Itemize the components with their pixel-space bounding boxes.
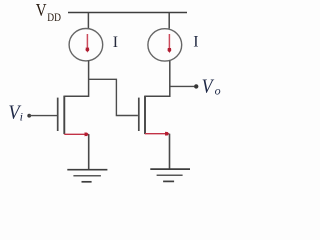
wire drain of M2 [145,95,170,97]
transistor M2 channel bar [144,96,146,135]
ground (right) [150,169,190,181]
svg-text:I: I [193,34,198,51]
svg-text:i: i [20,109,23,123]
node Vo junction dot [194,84,198,88]
transistor M1 gate bar [57,98,59,131]
wire Vi to gate of M1 [29,115,57,117]
wire source of M1 to ground [88,134,90,169]
node VDD label [36,0,61,24]
wire source of M2 (red) with arrow [145,132,170,136]
wire source of M1 (red) with arrow [64,132,89,136]
wire rail to current source I1 [87,13,89,29]
transistor M1 channel bar [63,96,65,135]
wire drain M2 node to Vo [170,85,194,87]
svg-text:DD: DD [47,12,61,24]
ground (left) [67,170,107,182]
transistor M2 gate bar [138,98,140,131]
svg-text:I: I [113,34,118,51]
node Vi label [8,101,23,123]
node Vi junction dot [27,114,31,118]
wire VDD rail [68,12,187,14]
wire drain M1 node to gate of M2 [89,79,138,115]
node Vo label [202,76,221,98]
svg-text:V: V [36,0,47,20]
current source I2 [148,29,182,61]
wire rail to current source I2 [168,13,170,29]
svg-text:V: V [202,76,215,98]
wire drain of M1 [64,95,88,97]
current source I1 [69,29,103,61]
wire I1 to drain of M1 [88,61,90,97]
svg-text:o: o [215,83,221,97]
wire I2 to drain of M2 [169,61,171,97]
wire source of M2 to ground [169,134,171,169]
